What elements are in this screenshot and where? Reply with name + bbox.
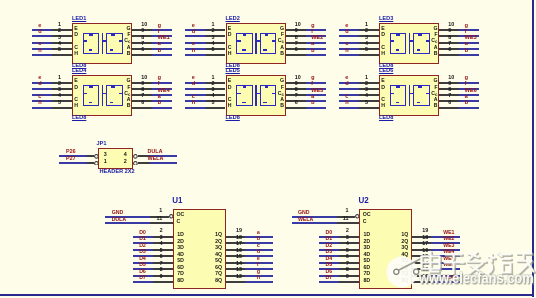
- net label c: [38, 95, 41, 101]
- pin name 7D of U1: [177, 272, 184, 277]
- pin name H of LED6: [381, 104, 385, 109]
- pin name B of LED4: [127, 104, 131, 109]
- pin 6 of U2: [339, 262, 359, 264]
- pin name B of LED3: [434, 52, 438, 57]
- pin number 9 of LED5: [295, 82, 298, 87]
- net label h: [345, 49, 348, 55]
- seven-segment right digit of LED5: [260, 85, 277, 106]
- wire: right net from pin 10 of LED2: [306, 29, 326, 31]
- pin name 2D of U2: [364, 240, 371, 245]
- pin number 6 of LED3: [448, 48, 451, 53]
- wire: D1 net into pin 3 of U2: [319, 242, 340, 244]
- pin 2 of LED5: [206, 88, 226, 90]
- net label b: [257, 237, 260, 242]
- wire: D1 net into pin 3 of U1: [133, 242, 154, 244]
- wire: right net from pin 10 of LED5: [306, 82, 326, 84]
- pin number 7 of LED1: [141, 42, 144, 47]
- net label DULA: [112, 218, 126, 223]
- net label h: [192, 49, 195, 55]
- seven-segment divider line of LED2: [255, 33, 257, 54]
- pin name Cc of LED4: [124, 92, 130, 97]
- pin name 2Q of U1: [215, 240, 222, 245]
- pin 1 of LED3: [359, 29, 379, 31]
- pin 2 of U2: [339, 236, 359, 238]
- wire: output net from pin 17 of U1: [245, 249, 273, 251]
- wire: left net into pin 1 of LED5: [185, 82, 206, 84]
- pin number 3 of LED1: [58, 36, 61, 41]
- wire: WELA net from pin 2 of JP1: [150, 162, 177, 164]
- pin 3 of LED5: [206, 94, 226, 96]
- pin 7 of LED6: [439, 100, 459, 102]
- wire: left net into pin 2 of LED6: [339, 88, 360, 90]
- pin 5 of LED2: [206, 54, 226, 56]
- pin 15 of U1: [226, 262, 245, 264]
- net label g: [158, 76, 161, 82]
- pin number 9 of LED4: [141, 82, 144, 87]
- pin number 2 of LED2: [212, 29, 215, 34]
- watermark: elecfans logo circle: [384, 254, 430, 291]
- pin 10 of LED4: [132, 82, 152, 84]
- pin number 8 of LED4: [141, 88, 144, 93]
- pin name C of LED1: [74, 46, 78, 51]
- pin 2 of U1: [153, 236, 173, 238]
- pin name B of LED6: [434, 104, 438, 109]
- designator label LED5: [226, 69, 240, 75]
- net label c: [38, 42, 41, 48]
- pin name G of LED4: [126, 79, 130, 84]
- pin number 2 of LED3: [365, 29, 368, 34]
- net label b: [465, 49, 468, 55]
- wire: right net from pin 7 of LED5: [306, 100, 326, 102]
- wire: right net from pin 10 of LED6: [459, 82, 479, 84]
- pin number 19 of U2: [422, 229, 428, 234]
- pin 4 of LED1: [52, 48, 72, 50]
- net label e: [38, 76, 41, 82]
- wire: left net into pin 5 of LED6: [339, 107, 360, 109]
- wire: output net from pin 14 of U1: [245, 268, 273, 270]
- seven-segment left digit of LED6: [390, 85, 407, 106]
- pin 14 of U1: [226, 268, 245, 270]
- wire: right net from pin 9 of LED5: [306, 88, 326, 90]
- pin 1 of LED5: [206, 82, 226, 84]
- net label e: [345, 76, 348, 82]
- net label P27: [66, 157, 76, 162]
- wire: left net into pin 1 of LED1: [32, 29, 53, 31]
- pin number 6 of U2: [346, 255, 349, 260]
- net label WE4: [443, 250, 454, 255]
- net label f: [158, 30, 160, 36]
- pin number 3 of LED2: [212, 36, 215, 41]
- pin number 8 of LED1: [141, 36, 144, 41]
- pin number 17 of U1: [236, 242, 242, 247]
- pin 16 of U2: [412, 255, 431, 257]
- pin number 18 of U2: [422, 236, 428, 241]
- pin 7 of U1: [153, 268, 173, 270]
- pin 18 of U2: [412, 242, 431, 244]
- pin number 5 of LED6: [365, 101, 368, 106]
- pin name D of LED5: [228, 86, 232, 91]
- wire: P26 net into pin 3 of JP1: [59, 155, 88, 157]
- wire: left net into pin 4 of LED2: [185, 48, 206, 50]
- pin 8 of LED6: [439, 94, 459, 96]
- pin number 12 of U2: [422, 275, 428, 280]
- wire: D3 net into pin 5 of U2: [319, 255, 340, 257]
- pin 1 of LED4: [52, 82, 72, 84]
- net label D6: [139, 270, 146, 275]
- pin number 6 of LED4: [141, 101, 144, 106]
- pin number 6 of U1: [160, 255, 163, 260]
- wire: output net from pin 15 of U1: [245, 262, 273, 264]
- pin number 5 of LED2: [212, 48, 215, 53]
- wire: left net into pin 1 of LED3: [339, 29, 360, 31]
- pin name F of LED6: [434, 86, 437, 91]
- pin number 10 of LED3: [448, 23, 454, 28]
- pin 10 of LED6: [439, 82, 459, 84]
- net label g: [158, 24, 161, 30]
- pin 5 of LED6: [359, 107, 379, 109]
- pin name Cc of LED3: [431, 39, 437, 44]
- pin name B of LED2: [280, 52, 284, 57]
- pin name C of LED3: [381, 46, 385, 51]
- wire: D2 net into pin 4 of U2: [319, 249, 340, 251]
- latch U2 body: [359, 209, 412, 289]
- pin number 13 of U2: [422, 268, 428, 273]
- pin name G of LED1: [126, 27, 130, 32]
- pin 10 of LED1: [132, 29, 152, 31]
- seven-segment divider line of LED5: [255, 85, 257, 106]
- pin name F of LED1: [127, 33, 130, 38]
- pin number 6 of LED6: [448, 101, 451, 106]
- pin name F of LED3: [434, 33, 437, 38]
- pin name OC of U2: [363, 213, 371, 218]
- pin name 1Q of U2: [401, 233, 408, 238]
- part label LED8 of LED5: [226, 116, 240, 122]
- pin number 5 of LED4: [58, 101, 61, 106]
- pin number 6 of LED2: [295, 48, 298, 53]
- display LED1 body: [72, 23, 132, 64]
- pin 12 of U1: [226, 281, 245, 283]
- designator label U2: [359, 197, 369, 205]
- net label c: [257, 244, 260, 249]
- pin number 2 of LED1: [58, 29, 61, 34]
- pin 13 of U1: [226, 275, 245, 277]
- pin 4 of U2: [339, 249, 359, 251]
- pin name E of LED2: [228, 27, 231, 32]
- net label a: [257, 231, 260, 236]
- pin 2 of LED2: [206, 35, 226, 37]
- net label f: [257, 263, 259, 268]
- pin name Cc of LED5: [278, 92, 284, 97]
- net label P26: [66, 150, 76, 155]
- wire: right net from pin 6 of LED2: [306, 54, 326, 56]
- pin number 4 of LED1: [58, 42, 61, 47]
- pin number 16 of U2: [422, 249, 428, 254]
- pin number 1 of LED4: [58, 76, 61, 81]
- net label WE3: [443, 244, 454, 249]
- net label f: [465, 30, 467, 36]
- pin 1 of LED6: [359, 82, 379, 84]
- pin name 4Q of U1: [215, 253, 222, 258]
- pin 4 of LED6: [359, 100, 379, 102]
- wire: left net into pin 5 of LED4: [32, 107, 53, 109]
- pin name Cc of LED1: [124, 39, 130, 44]
- pin number 14 of U1: [236, 262, 242, 267]
- wire: D2 net into pin 4 of U1: [133, 249, 154, 251]
- seven-segment left digit of LED3: [390, 33, 407, 54]
- wire: D4 net into pin 6 of U1: [133, 262, 154, 264]
- wire: right net from pin 9 of LED4: [152, 88, 172, 90]
- wire: left net into pin 3 of LED2: [185, 42, 206, 44]
- wire: D5 net into pin 7 of U2: [319, 268, 340, 270]
- pin number 11 of U2: [343, 217, 349, 222]
- net label WE4: [158, 89, 170, 95]
- pin number 7 of U2: [346, 262, 349, 267]
- pin number 5 of LED5: [212, 101, 215, 106]
- pin number 6 of LED5: [295, 101, 298, 106]
- pin name A of LED5: [280, 98, 284, 103]
- wire: right net from pin 8 of LED5: [306, 94, 326, 96]
- seven-segment divider line of LED3: [409, 33, 411, 54]
- wire: left net into pin 4 of LED5: [185, 100, 206, 102]
- wire: D0 net into pin 2 of U1: [133, 236, 154, 238]
- pin name 2D of U1: [177, 240, 184, 245]
- pin 6 of LED3: [439, 54, 459, 56]
- pin name E of LED6: [381, 79, 384, 84]
- pin number 10 of LED5: [295, 76, 301, 81]
- pin name 6Q of U2: [401, 266, 408, 271]
- pin number 10 of LED6: [448, 76, 454, 81]
- wire: output net from pin 13 of U1: [245, 275, 273, 277]
- pin number 3 of LED4: [58, 88, 61, 93]
- part label LED8 of LED1: [72, 64, 86, 70]
- pin name C of LED6: [381, 98, 385, 103]
- pin number 3 of LED3: [365, 36, 368, 41]
- wire: right net from pin 7 of LED4: [152, 100, 172, 102]
- pin 7 of LED1: [132, 48, 152, 50]
- pin 8 of LED3: [439, 42, 459, 44]
- pin name 3Q of U1: [215, 246, 222, 251]
- net label WE1: [443, 231, 454, 236]
- net label c: [192, 42, 195, 48]
- net label WE6: [465, 89, 477, 95]
- part label LED8 of LED4: [72, 116, 86, 122]
- wire: output net from pin 18 of U1: [245, 242, 273, 244]
- pin 5 of LED4: [52, 107, 72, 109]
- pin number 1 of LED6: [365, 76, 368, 81]
- net label D2: [139, 244, 146, 249]
- wire: DULA net from pin 4 of JP1: [150, 155, 177, 157]
- pin name 5D of U2: [364, 259, 371, 264]
- watermark: www.elecfans.com: [419, 272, 534, 287]
- net label a: [465, 42, 468, 48]
- wire: left net into pin 2 of LED1: [32, 35, 53, 37]
- pin name D of LED2: [228, 33, 232, 38]
- seven-segment right digit of LED1: [106, 33, 123, 54]
- part label LED8 of LED2: [226, 64, 240, 70]
- net label f: [311, 82, 313, 88]
- wire: right net from pin 7 of LED2: [306, 48, 326, 50]
- pin name F of LED2: [281, 33, 284, 38]
- pin 3 of JP1: [87, 155, 94, 157]
- net label d: [257, 250, 260, 255]
- pin 2 of LED6: [359, 88, 379, 90]
- pin 18 of U1: [226, 242, 245, 244]
- pin 11 (C) of U2: [337, 222, 359, 224]
- pin number 13 of U1: [236, 268, 242, 273]
- wire: left net into pin 2 of LED5: [185, 88, 206, 90]
- pin number 8 of LED5: [295, 88, 298, 93]
- net label D3: [326, 250, 333, 255]
- net label c: [192, 95, 195, 101]
- net label WE5: [443, 257, 454, 262]
- part label LED8 of LED3: [379, 64, 393, 70]
- pin name 5Q of U1: [215, 259, 222, 264]
- pin 13 of U2: [412, 275, 431, 277]
- pin number 4 of LED2: [212, 42, 215, 47]
- net label b: [465, 101, 468, 107]
- net label b: [311, 49, 314, 55]
- pin 12 of U2: [412, 281, 431, 283]
- display LED2 body: [226, 23, 286, 64]
- pin 5 of U1: [153, 255, 173, 257]
- net label CLAT: [443, 276, 456, 281]
- pin name 5D of U1: [177, 259, 184, 264]
- pin number 2 inside JP1: [124, 160, 127, 165]
- wire: right net from pin 9 of LED3: [459, 35, 479, 37]
- pin name C of LED4: [74, 98, 78, 103]
- seven-segment right digit of LED3: [413, 33, 430, 54]
- pin name 2Q of U2: [401, 240, 408, 245]
- pin 5 of LED5: [206, 107, 226, 109]
- pin 5 of LED1: [52, 54, 72, 56]
- wire: right net from pin 8 of LED3: [459, 42, 479, 44]
- net label WE6: [443, 263, 454, 268]
- pin name G of LED6: [433, 79, 437, 84]
- pin number 4 of LED4: [58, 94, 61, 99]
- wire: left net into pin 1 of LED4: [32, 82, 53, 84]
- pin name 3D of U1: [177, 246, 184, 251]
- pin number 7 of LED4: [141, 94, 144, 99]
- pin name A of LED3: [434, 46, 438, 51]
- seven-segment divider line of LED4: [102, 85, 104, 106]
- pin number 3 of LED6: [365, 88, 368, 93]
- part label LED8 of LED6: [379, 116, 393, 122]
- wire: right net from pin 8 of LED6: [459, 94, 479, 96]
- net label h: [345, 101, 348, 107]
- pin number 10 of LED4: [141, 76, 147, 81]
- pin name F of LED5: [281, 86, 284, 91]
- pin number 7 of LED6: [448, 94, 451, 99]
- wire: left net into pin 5 of LED3: [339, 54, 360, 56]
- pin name F of LED4: [127, 86, 130, 91]
- net label a: [158, 95, 161, 101]
- net label D4: [139, 257, 146, 262]
- wire: D6 net into pin 8 of U2: [319, 275, 340, 277]
- pin 3 of U1: [153, 242, 173, 244]
- pin 9 of LED6: [439, 88, 459, 90]
- pin 1 of JP1: [87, 162, 94, 164]
- net label d: [345, 82, 348, 88]
- pin number 9 of LED6: [448, 82, 451, 87]
- pin name Cc of LED6: [431, 92, 437, 97]
- pin 2 of LED4: [52, 88, 72, 90]
- wire: left net into pin 3 of LED5: [185, 94, 206, 96]
- pin name 6D of U1: [177, 266, 184, 271]
- wire: output net from pin 12 of U1: [245, 281, 273, 283]
- pin number 4 of U1: [160, 242, 163, 247]
- wire: right net from pin 8 of LED2: [306, 42, 326, 44]
- designator label JP1: [97, 142, 107, 148]
- pin 2 of LED3: [359, 35, 379, 37]
- pin number 8 of LED3: [448, 36, 451, 41]
- pin 11 (C) of U1: [150, 222, 172, 224]
- pin name E of LED3: [381, 27, 384, 32]
- net label e: [257, 257, 260, 262]
- pin 9 of LED5: [286, 88, 306, 90]
- net label D1: [139, 237, 146, 242]
- net label d: [38, 30, 41, 36]
- net label b: [311, 101, 314, 107]
- wire: left net into pin 3 of LED1: [32, 42, 53, 44]
- wire: right net from pin 9 of LED1: [152, 35, 172, 37]
- pin 4 of JP1: [133, 154, 138, 159]
- wire: right net from pin 10 of LED4: [152, 82, 172, 84]
- net label d: [38, 82, 41, 88]
- pin number 3 of LED5: [212, 88, 215, 93]
- pin 6 of LED1: [132, 54, 152, 56]
- part label HEADER 2X2: [100, 170, 135, 176]
- wire: right net from pin 9 of LED6: [459, 88, 479, 90]
- pin number 5 of U1: [160, 249, 163, 254]
- pin name H of LED2: [228, 52, 232, 57]
- net label d: [345, 30, 348, 36]
- net label e: [38, 24, 41, 30]
- net label a: [158, 42, 161, 48]
- wire: left net into pin 2 of LED3: [339, 35, 360, 37]
- net label e: [345, 24, 348, 30]
- pin 7 of U2: [339, 268, 359, 270]
- net label b: [158, 101, 161, 107]
- pin 6 of LED6: [439, 107, 459, 109]
- net label c: [345, 95, 348, 101]
- net label WE2: [311, 36, 323, 42]
- pin 9 of LED2: [286, 35, 306, 37]
- wire: output net from pin 14 of U2: [431, 268, 459, 270]
- pin number 9 of LED2: [295, 29, 298, 34]
- wire: left net into pin 3 of LED3: [339, 42, 360, 44]
- wire: output net from pin 18 of U2: [431, 242, 459, 244]
- pin number 15 of U2: [422, 255, 428, 260]
- wire: D6 net into pin 8 of U1: [133, 275, 154, 277]
- pin number 8 of U1: [160, 268, 163, 273]
- net label GND: [112, 211, 124, 216]
- wire: right net from pin 6 of LED3: [459, 54, 479, 56]
- pin name 8D of U2: [364, 279, 371, 284]
- pin 10 of LED3: [439, 29, 459, 31]
- pin 19 of U2: [412, 236, 431, 238]
- pin name G of LED3: [433, 27, 437, 32]
- pin 19 of U1: [226, 236, 245, 238]
- pin 4 of LED2: [206, 48, 226, 50]
- wire: left net into pin 3 of LED4: [32, 94, 53, 96]
- wire: output net from pin 17 of U2: [431, 249, 459, 251]
- pin 9 of LED3: [439, 35, 459, 37]
- pin 6 of LED2: [286, 54, 306, 56]
- net label GND: [298, 211, 310, 216]
- pin name B of LED5: [280, 104, 284, 109]
- pin number 1 of LED1: [58, 23, 61, 28]
- designator label LED6: [379, 69, 393, 75]
